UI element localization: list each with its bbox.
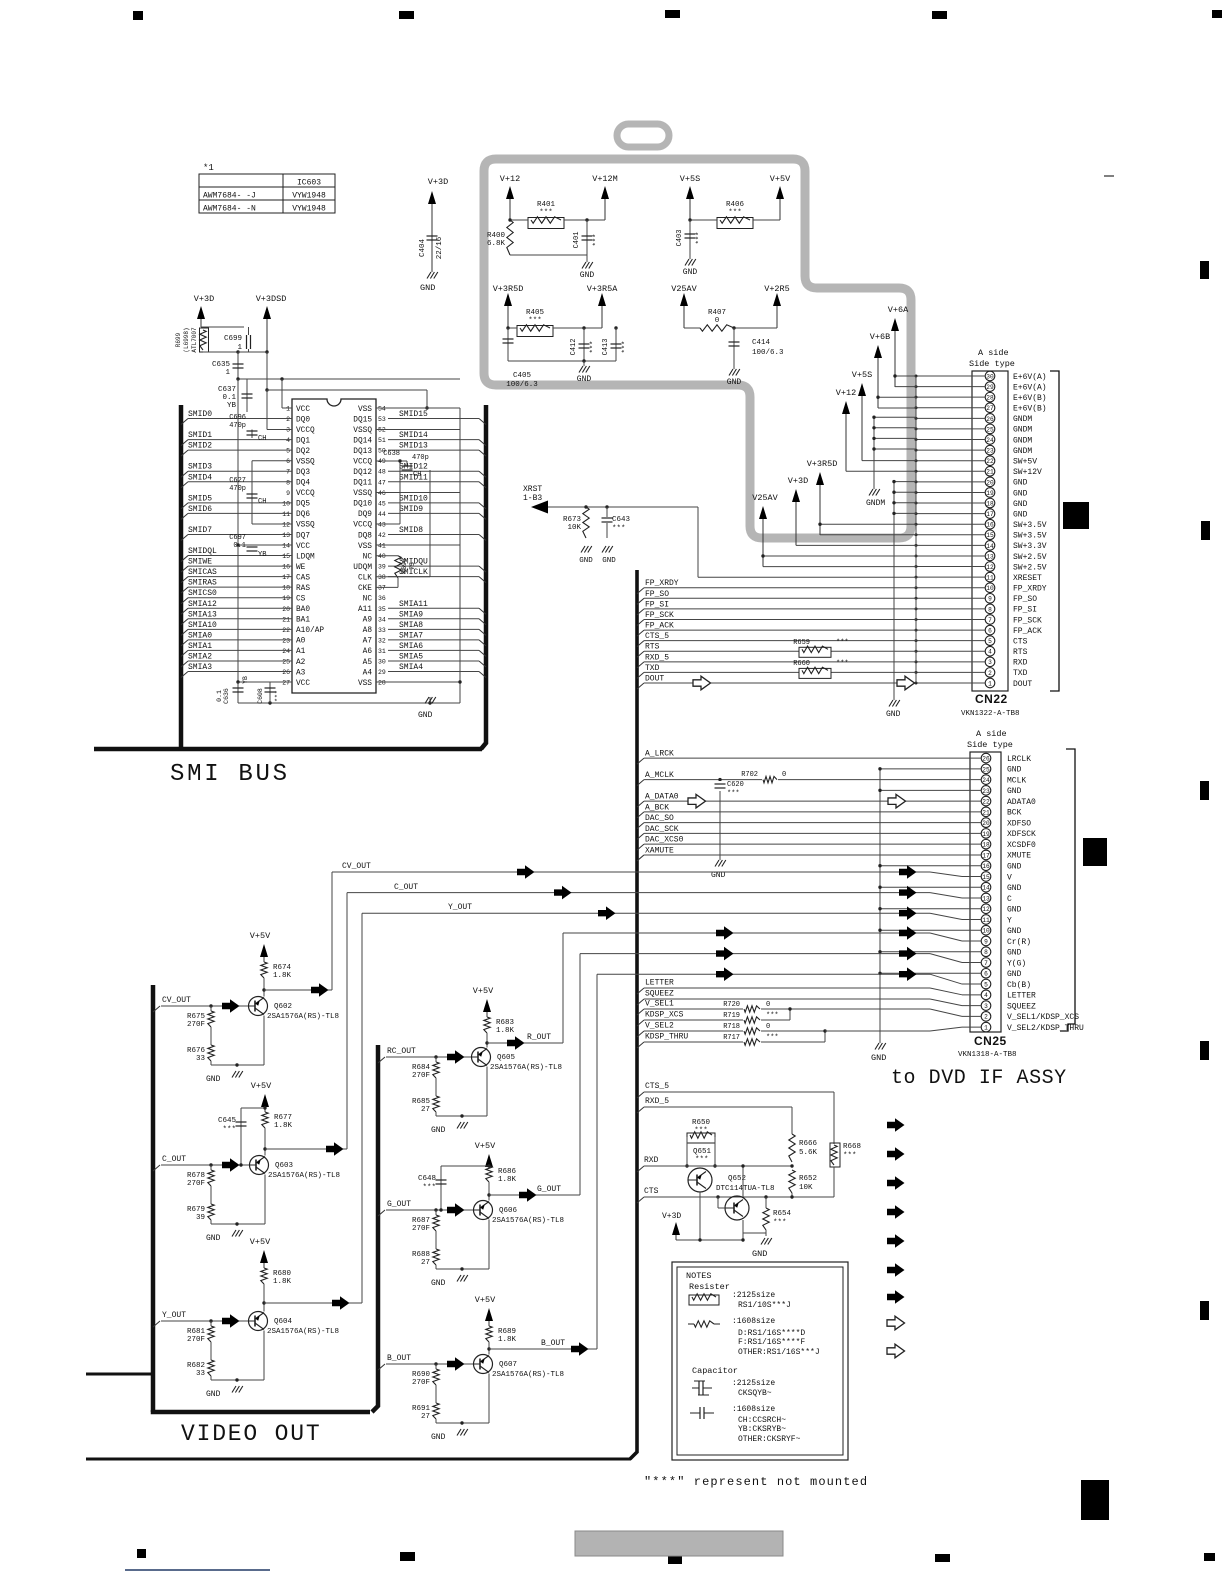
svg-text:***: *** [836,639,849,647]
bracket CN22 [1050,371,1059,691]
ground [457,1122,461,1129]
svg-text:***: *** [773,1219,787,1227]
svg-text:1.8K: 1.8K [496,1027,515,1035]
resistor R650 [690,1132,712,1138]
wire [862,460,916,462]
svg-text:29: 29 [378,669,386,676]
wire [820,523,916,525]
wire SMIA2 [181,661,188,667]
wire [846,470,916,472]
svg-text:35: 35 [378,606,386,613]
wire emitter row [435,1112,437,1116]
svg-text:27: 27 [986,405,994,412]
arrow page link 4 [887,1205,905,1219]
svg-text:***: *** [766,1034,779,1042]
svg-text:C414: C414 [752,339,771,347]
svg-text:V+12: V+12 [500,174,520,184]
svg-text:VIDEO OUT: VIDEO OUT [181,1421,321,1447]
svg-text:RAS: RAS [296,585,310,593]
svg-text:A_BCK: A_BCK [645,803,669,812]
svg-text:VSS: VSS [358,543,372,551]
ground [429,697,431,703]
svg-text:CAS: CAS [296,574,310,582]
svg-text:V+2R5: V+2R5 [764,284,790,294]
wire emitter row [435,1419,437,1423]
ground GNDM [873,417,875,489]
svg-text:28: 28 [378,680,386,687]
svg-text:DQ1: DQ1 [296,437,310,445]
svg-text:27: 27 [421,1106,430,1114]
resistor R696 [376,555,398,557]
arrow output [507,1036,525,1050]
svg-text:A_LRCK: A_LRCK [645,750,674,759]
wire output [264,989,332,991]
table IC603 [199,174,335,213]
svg-text:17: 17 [986,511,994,518]
wire SMICS0 [181,598,188,604]
arrow CV_OUT [517,865,535,879]
svg-text:18: 18 [982,842,990,849]
svg-text:C403: C403 [676,230,684,247]
svg-text:CTS_5: CTS_5 [645,1082,669,1091]
svg-text:VKN1322-A-TB8: VKN1322-A-TB8 [961,710,1020,718]
svg-text:SMID4: SMID4 [188,473,212,482]
pin 8 CN22 [985,604,995,614]
svg-text:BCK: BCK [1007,809,1022,818]
svg-text:Cb(B): Cb(B) [1007,981,1031,990]
wire FP_SI [637,609,644,615]
ground [232,1071,236,1078]
wire V_SEL2 join [824,1031,826,1042]
svg-text:CTS: CTS [1013,637,1028,646]
wire output [487,1042,563,1044]
wire output [489,1348,597,1350]
connector CN22 box [972,371,1008,691]
svg-text:36: 36 [378,595,386,602]
svg-text:VCC: VCC [296,680,310,688]
wire [763,555,916,557]
svg-text:1: 1 [286,406,290,413]
svg-text:46: 46 [378,490,386,497]
svg-text:17: 17 [282,574,290,581]
svg-text:R401: R401 [537,201,556,209]
wire FP_SO [637,598,644,604]
svg-text:37: 37 [378,585,386,592]
svg-text:NC: NC [363,596,373,604]
pin 11 CN25 [981,915,991,925]
svg-text:R683: R683 [496,1019,515,1027]
wire DAC_SCK [637,833,644,839]
ground [232,1230,236,1237]
svg-text:R677: R677 [274,1114,292,1122]
svg-text:20: 20 [986,479,994,486]
svg-text:0: 0 [715,317,720,325]
svg-text:R673: R673 [563,516,582,524]
bottom blue rule [125,1569,270,1571]
pin 27 CN22 [985,403,995,413]
svg-text:C412: C412 [570,339,578,356]
svg-text:V25AV: V25AV [671,284,697,294]
svg-text:V+3D: V+3D [428,177,448,187]
wire SMID14 [479,440,486,446]
wire SMID8 [479,534,486,540]
svg-text:RXD: RXD [644,1156,659,1165]
svg-text:470p: 470p [229,485,246,493]
svg-text:SMID3: SMID3 [188,463,212,472]
pin 18 CN22 [985,498,995,508]
svg-text:0: 0 [782,771,786,779]
capacitor C648 [440,1166,442,1210]
svg-text:7: 7 [988,617,992,624]
svg-text:Q602: Q602 [274,1003,292,1011]
svg-text:CV_OUT: CV_OUT [342,862,371,871]
svg-text:SMIA7: SMIA7 [399,631,423,640]
capacitor C405 [507,328,509,361]
pin 30 CN22 [985,371,995,381]
svg-text:R674: R674 [273,964,292,972]
svg-text:C636: C636 [223,688,230,704]
wire SMIA3 [181,672,188,678]
svg-text:DOUT: DOUT [1013,680,1032,689]
svg-text:DTC114TUA-TL8: DTC114TUA-TL8 [716,1185,775,1193]
wire SMIA9 [479,619,486,625]
svg-text:16: 16 [982,863,990,870]
wire Y_OUT riser [361,913,363,1303]
resistor R675 [210,1006,212,1011]
svg-text:YB: YB [227,402,237,410]
svg-text:***: *** [612,525,626,533]
wire SMIA12 [181,608,188,614]
registration marks top edge [133,11,143,20]
pin 12 CN22 [985,562,995,572]
pin 20 CN22 [985,477,995,487]
resistor R689 [486,1326,492,1342]
svg-text:FP_ACK: FP_ACK [1013,627,1042,636]
resistor R719 [743,1016,761,1024]
svg-text:CKSQYB~: CKSQYB~ [738,1389,772,1398]
wire [510,254,587,256]
svg-text:3: 3 [984,1003,988,1010]
svg-text:V+5V: V+5V [475,1141,496,1151]
svg-text:R690: R690 [412,1371,431,1379]
svg-text:7: 7 [286,469,290,476]
svg-text:C: C [1007,895,1012,904]
svg-text:DQ14: DQ14 [353,437,372,445]
svg-text:270F: 270F [412,1072,430,1080]
notes resistor 2125 symbol [692,1294,716,1300]
wire CTS [637,1197,644,1203]
arrow page link 5 [887,1234,905,1248]
svg-text:5.6K: 5.6K [799,1149,818,1157]
svg-text:DQ10: DQ10 [353,501,372,509]
arrow input [222,1314,240,1328]
svg-text:49: 49 [378,458,386,465]
svg-text:1: 1 [984,1025,988,1032]
svg-text:4: 4 [984,992,988,999]
svg-text:BA0: BA0 [296,606,310,614]
connector CN25 box [970,752,1001,1032]
svg-text:4: 4 [988,649,992,656]
svg-text:44: 44 [378,511,386,518]
registration marks bottom edge [137,1549,146,1558]
pin 18 CN25 [981,839,991,849]
svg-text:CTS_5: CTS_5 [645,632,669,641]
resistor R682 [208,1360,214,1376]
svg-text:15: 15 [986,532,994,539]
svg-text:***: *** [539,209,553,217]
svg-text:SMIA9: SMIA9 [399,610,423,619]
svg-text:A6: A6 [363,648,373,656]
svg-text:V+5S: V+5S [852,370,872,380]
svg-text:V_SEL2: V_SEL2 [645,1022,674,1031]
svg-text:R678: R678 [187,1172,205,1180]
svg-text:GND: GND [1007,927,1022,936]
svg-text:C635: C635 [212,361,231,369]
svg-text:100/6.3: 100/6.3 [752,349,784,357]
power V+3D [200,315,202,327]
svg-text:27: 27 [282,680,290,687]
svg-text:C405: C405 [513,372,532,380]
svg-text:SMIDQL: SMIDQL [188,547,217,556]
power V+3D [795,498,797,545]
wire SMID10 [479,503,486,509]
wire emitter row [210,1376,212,1380]
svg-text:CTS: CTS [644,1187,659,1196]
notes resistor 1608 symbol [688,1323,694,1325]
svg-text:19: 19 [282,595,290,602]
svg-text:***: *** [696,232,704,245]
svg-text:R684: R684 [412,1064,431,1072]
capacitor C635 [237,352,239,379]
pin 19 CN22 [985,488,995,498]
wire input B_OUT [378,1364,385,1370]
svg-text:10K: 10K [567,524,581,532]
svg-text:NOTES: NOTES [686,1271,712,1281]
wire XRESET [698,576,916,578]
arrow input [447,1203,465,1217]
svg-text:39: 39 [196,1214,205,1222]
svg-text:C697: C697 [229,534,246,542]
svg-text:KDSP_THRU: KDSP_THRU [645,1033,688,1042]
pin 2 CN25 [981,1012,991,1022]
svg-text:0.1: 0.1 [222,394,236,402]
svg-text:C413: C413 [602,339,610,356]
svg-text:23: 23 [982,788,990,795]
wire RXD_5 [637,1107,644,1113]
pin 26 CN25 [981,753,991,763]
svg-text:270F: 270F [187,1021,205,1029]
wire SMIA1 [181,650,188,656]
svg-text:10: 10 [282,500,290,507]
svg-text:CN22: CN22 [975,692,1008,706]
wire emitter row [210,1061,212,1065]
capacitor C696 [251,430,253,439]
bus bar video right [372,1045,378,1412]
svg-text:VSS: VSS [358,406,372,414]
wire [684,327,700,329]
svg-text:24: 24 [982,777,990,784]
svg-text:GND: GND [1013,500,1028,509]
svg-text:V+12M: V+12M [592,174,618,184]
svg-text:C627: C627 [229,477,246,485]
resistor R668 [831,1145,837,1165]
wire SMIDQL [181,556,188,562]
svg-text:10: 10 [982,928,990,935]
svg-text:R699: R699 [175,332,182,347]
wire FP_ACK [637,630,644,636]
arrow output [519,1188,537,1202]
wire SMID12 [479,471,486,477]
svg-text:SMID13: SMID13 [399,442,428,451]
wire LETTER [637,988,644,994]
svg-text:V+5V: V+5V [250,931,271,941]
svg-text:R685: R685 [412,1098,431,1106]
power V+3D [431,200,433,272]
svg-text:TXD: TXD [645,664,660,673]
transistor Q602 [249,997,268,1016]
svg-text:24: 24 [282,648,290,655]
left stub rail [86,1373,153,1376]
svg-text:Y_OUT: Y_OUT [162,1311,186,1320]
wire FP_XRDY [637,588,644,594]
svg-text:GND: GND [1007,884,1022,893]
arrow DOUT out [693,676,711,690]
svg-text:31: 31 [378,648,386,655]
svg-text:R679: R679 [187,1206,205,1214]
svg-text:***: *** [274,690,281,702]
transistor Q606 [474,1201,493,1220]
arrow into CN25 [899,906,917,920]
pin 10 CN22 [985,583,995,593]
arrow R_OUT row [716,926,734,940]
svg-text:CV_OUT: CV_OUT [162,996,191,1005]
svg-text:15: 15 [282,553,290,560]
ground GND rail [893,482,895,700]
pin 6 CN22 [985,625,995,635]
arrow into CN25 [899,947,917,961]
wire input G_OUT [378,1210,385,1216]
bottom long rail [86,1458,631,1461]
wire V_SEL2 [637,1031,644,1037]
svg-text:ATL7007: ATL7007 [191,327,198,353]
wire [895,375,916,377]
ground [232,1386,236,1393]
svg-text:A2: A2 [296,659,306,667]
svg-text:Y_OUT: Y_OUT [448,903,472,912]
svg-text:Q607: Q607 [499,1361,517,1369]
power V+6A [894,327,896,387]
svg-text:***: *** [836,660,849,668]
svg-text:2SA1576A(RS)-TL8: 2SA1576A(RS)-TL8 [267,1328,339,1336]
svg-text:470p: 470p [229,422,246,430]
svg-text:R719: R719 [723,1012,740,1020]
svg-text:DAC_XCS0: DAC_XCS0 [645,836,684,845]
svg-text:F:RS1/16S****F: F:RS1/16S****F [738,1338,805,1347]
capacitor C403 [689,220,691,259]
svg-text:CS: CS [296,596,306,604]
pin 7 CN25 [981,958,991,968]
svg-text:DQ8: DQ8 [358,532,372,540]
svg-text:TXD: TXD [1013,669,1028,678]
svg-text:SMIA2: SMIA2 [188,652,212,661]
svg-text:to DVD IF ASSY: to DVD IF ASSY [891,1067,1067,1090]
svg-text:33: 33 [196,1055,206,1063]
wire C_OUT row [347,892,930,894]
svg-text:A4: A4 [363,669,373,677]
resistor R686 [486,1166,492,1182]
svg-text:15: 15 [982,874,990,881]
svg-text:13: 13 [982,895,990,902]
wire KDSP_XCS [637,1020,644,1026]
power V+5V [488,1163,490,1166]
capacitor C636 [237,682,239,686]
wire SMIA11 [479,608,486,614]
wire [508,327,517,329]
resistor R674 [261,962,267,978]
svg-text:*1: *1 [203,163,214,173]
svg-text:GND: GND [886,710,901,719]
svg-text:7: 7 [984,960,988,967]
svg-text:RC_OUT: RC_OUT [387,1047,416,1056]
svg-text:21: 21 [986,469,994,476]
svg-text:FP_SO: FP_SO [1013,595,1037,604]
svg-text:SMID8: SMID8 [399,526,423,535]
svg-text:CH: CH [413,471,421,479]
svg-text:8: 8 [988,606,992,613]
wire output [489,1194,580,1196]
svg-text:XMUTE: XMUTE [1007,852,1031,861]
svg-text:SMID14: SMID14 [399,431,428,440]
svg-text:GND: GND [752,1249,767,1259]
svg-text:6: 6 [984,971,988,978]
svg-text:DQ7: DQ7 [296,532,310,540]
wire CV_OUT riser [331,872,333,990]
wire emitter row [210,1220,212,1224]
svg-text:R405: R405 [526,309,545,317]
ground rail CN25 [879,769,881,1043]
gray pill tab [617,124,669,147]
svg-text:27: 27 [421,1413,430,1421]
power V25AV [683,302,685,328]
bottom gray bar [575,1531,783,1556]
resistor R679 [208,1204,214,1220]
svg-text:E+6V(B): E+6V(B) [1013,394,1047,403]
wire [201,326,244,328]
svg-text:23: 23 [986,448,994,455]
svg-text:OTHER:RS1/16S***J: OTHER:RS1/16S***J [738,1348,820,1357]
wire DAC_XCS0 [637,844,644,850]
ground [715,860,719,867]
junction rail CN22 [915,376,917,683]
svg-text:R688: R688 [412,1251,430,1259]
wire SMICAS [181,577,188,583]
svg-text:SMIA8: SMIA8 [399,621,423,630]
svg-text:27: 27 [421,1259,430,1267]
svg-text:16: 16 [282,564,290,571]
svg-text:R689: R689 [498,1328,516,1336]
svg-text:V+12: V+12 [836,388,856,398]
svg-text:SMIA12: SMIA12 [188,600,217,609]
power V+3R5A [601,302,603,328]
wire [510,219,528,221]
wire node to IC [238,378,460,380]
svg-text:45: 45 [378,500,386,507]
svg-text:24: 24 [986,437,994,444]
svg-text:SMIA10: SMIA10 [188,621,217,630]
svg-text:R675: R675 [187,1013,206,1021]
pin 23 CN22 [985,445,995,455]
arrow page link 3 [887,1176,905,1190]
